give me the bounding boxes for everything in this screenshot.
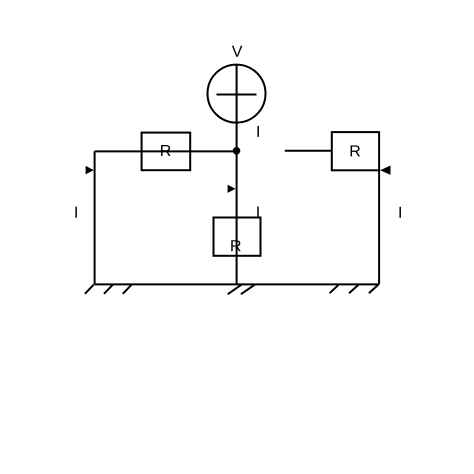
wire: left horizontal from node to left branch	[95, 150, 237, 152]
resistor R2 (right)	[332, 132, 379, 170]
label V (source value)	[232, 46, 243, 57]
label I (right branch current)	[399, 207, 400, 218]
wire: bottom ground rail	[95, 283, 380, 285]
ground (left)	[85, 285, 132, 294]
ground (right)	[330, 285, 379, 293]
wire: left vertical down to ground	[94, 151, 96, 284]
node junction dot	[233, 147, 241, 155]
resistor R3 (middle)	[214, 218, 261, 256]
voltage source V	[208, 65, 266, 123]
label I (source branch current)	[257, 126, 258, 137]
label R (middle resistor)	[231, 240, 241, 251]
label I (left branch current)	[75, 207, 76, 218]
label R (right resistor)	[351, 145, 361, 156]
wire: right stub into right resistor	[285, 150, 332, 152]
wire: right vertical down to ground	[378, 170, 380, 284]
wire: main vertical from source through middle resistor to ground	[236, 65, 238, 285]
current arrow (right branch)	[380, 166, 390, 175]
ground (middle)	[228, 284, 256, 294]
label R (left resistor)	[161, 145, 171, 156]
current arrow (middle branch)	[228, 185, 236, 193]
label I (middle branch current)	[257, 206, 258, 217]
resistor R1 (left)	[142, 133, 191, 171]
current arrow (left branch)	[86, 166, 94, 175]
